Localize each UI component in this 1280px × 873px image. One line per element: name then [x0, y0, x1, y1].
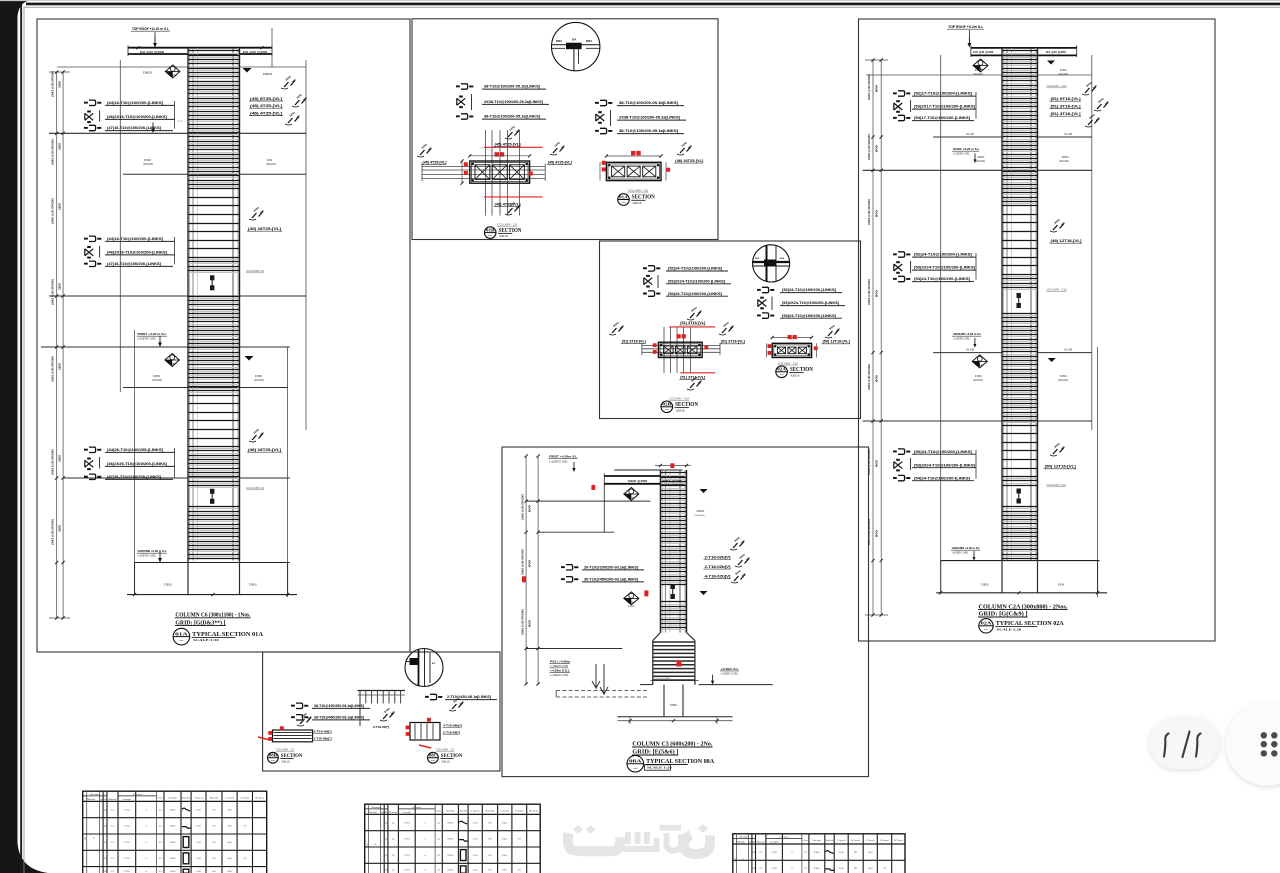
svg-text:Total length: Total length	[168, 797, 177, 800]
svg-text:20-T10@100/200-03.2a[LINKS]: 20-T10@100/200-03.2a[LINKS]	[584, 566, 638, 570]
svg-text:38-T10@100/200-08.1a[LINKS]: 38-T10@100/200-08.1a[LINKS]	[314, 704, 364, 708]
svg-text:D81: D81	[1060, 375, 1068, 378]
svg-text:Bar: Bar	[104, 798, 107, 801]
panel A right diagonal dim clusters group 1	[284, 82, 289, 87]
svg-text:(44)26-T10@100/205-[LINKS]: (44)26-T10@100/205-[LINKS]	[107, 448, 163, 452]
panel D border: COLUMN C3 typical section 08A	[502, 447, 869, 777]
svg-text:Type: Type	[749, 841, 752, 843]
svg-text:DA @D @200: DA @D @200	[973, 50, 993, 54]
panel A section bubble 01A	[173, 628, 190, 645]
panel A grid verticals	[119, 60, 121, 392]
svg-text:WT (pcs): WT (pcs)	[894, 840, 903, 842]
svg-text:38-T10@100/200-05.1b[LINKS]: 38-T10@100/200-05.1b[LINKS]	[619, 101, 678, 105]
svg-text:DB1: DB1	[164, 583, 173, 587]
svg-text:TYPICAL SECTION 01A: TYPICAL SECTION 01A	[192, 631, 263, 638]
panel F level marker diamond low	[972, 355, 987, 368]
svg-text:(+)ZERO (VB): (+)ZERO (VB)	[953, 154, 969, 156]
svg-text:(45) 4T25-[VL]: (45) 4T25-[VL]	[250, 104, 282, 108]
svg-text:SLAB: SLAB	[1064, 349, 1073, 352]
menu dots button	[1226, 703, 1280, 786]
svg-text:Location: Location	[779, 835, 788, 838]
svg-text:(46)2X16-T10@100/200-[LINKS]: (46)2X16-T10@100/200-[LINKS]	[107, 115, 167, 119]
svg-text:(200x400): (200x400)	[1058, 380, 1068, 382]
svg-text:Cont.: Cont.	[436, 810, 442, 813]
svg-text:38-T10@100/200-05.1a[LINKS]: 38-T10@100/200-05.1a[LINKS]	[484, 115, 540, 119]
svg-text:800: 800	[875, 84, 879, 92]
svg-text:SECTION: SECTION	[499, 228, 523, 234]
svg-text:D92: D92	[144, 158, 152, 162]
svg-text:01B: 01B	[486, 227, 495, 232]
svg-text:Member: Member	[740, 836, 749, 838]
svg-text:C (cm): C (cm)	[225, 798, 234, 800]
panel D ground line right	[699, 684, 773, 686]
panel A sub-beam line	[57, 66, 306, 68]
svg-text:SCALE: 1:20: SCALE: 1:20	[633, 201, 641, 205]
panel C border: sections 02B and 02A of column C2A	[600, 241, 861, 419]
panel A level marker diamond DB10	[165, 65, 180, 78]
svg-text:SECTION: SECTION	[441, 753, 463, 759]
svg-text:600: 600	[528, 504, 532, 512]
svg-text:SCALE 1:20: SCALE 1:20	[647, 765, 672, 769]
svg-text:DB1: DB1	[249, 583, 258, 587]
svg-text:Location: Location	[133, 793, 142, 796]
svg-text:SECTION: SECTION	[281, 753, 303, 759]
svg-text:(51) 3T16-[VL]: (51) 3T16-[VL]	[1051, 105, 1081, 109]
svg-text:600: 600	[528, 559, 532, 567]
panel A callout cluster 1	[89, 100, 96, 105]
panel A callout cluster 3	[89, 447, 96, 452]
svg-text:1100: 1100	[58, 283, 62, 290]
svg-text:D80: D80	[1062, 156, 1070, 159]
panel E left small section 08B	[274, 732, 312, 734]
svg-text:PGL/ +4.20m: PGL/ +4.20m	[550, 660, 571, 664]
svg-text:+0.00m S.L: +0.00m S.L	[721, 667, 739, 671]
svg-text:LINKS @100 SPACING: LINKS @100 SPACING	[51, 449, 55, 475]
svg-text:Location: Location	[412, 806, 421, 809]
svg-text:LINKS @100 SPACING: LINKS @100 SPACING	[51, 71, 55, 97]
panel E comb wall section	[358, 690, 406, 692]
svg-text:(53)2X24-T10@100/200-[LINKS]: (53)2X24-T10@100/200-[LINKS]	[914, 266, 975, 270]
svg-text:TYPICAL SECTION 08A: TYPICAL SECTION 08A	[646, 758, 715, 765]
svg-text:—: —	[780, 372, 785, 376]
panel D floor lines	[526, 500, 650, 502]
svg-text:D (mm): D (mm)	[880, 840, 889, 842]
table 3 column lines	[748, 834, 750, 873]
panel E detail circle	[405, 649, 443, 687]
panel F sub-beam line	[866, 74, 1092, 76]
svg-text:D81: D81	[975, 375, 983, 378]
svg-text:(250x600): (250x600)	[143, 163, 153, 166]
svg-text:(51) 3T16-[VL]: (51) 3T16-[VL]	[721, 340, 745, 344]
svg-text:2-T16-02b[V]: 2-T16-02b[V]	[705, 565, 731, 569]
panel C right callout rows	[762, 287, 769, 292]
svg-text:Member: Member	[372, 807, 381, 809]
svg-text:FIRST +4.20 m S.L: FIRST +4.20 m S.L	[138, 332, 167, 336]
panel F ground line and footing	[941, 560, 1100, 562]
svg-text:D (mm): D (mm)	[241, 798, 250, 800]
column C3 shaft with ties	[685, 470, 688, 633]
panel F border: COLUMN C2A typical section 02A	[859, 19, 1216, 641]
svg-text:LINKS @100 SPACING: LINKS @100 SPACING	[867, 199, 871, 225]
column C2A shaft with ties	[1036, 48, 1039, 561]
svg-text:B (cm): B (cm)	[486, 811, 495, 813]
svg-text:Shape/ Bend: Shape/ Bend	[826, 840, 834, 842]
svg-text:(200x400): (200x400)	[1058, 74, 1068, 76]
svg-text:(+)ZERO (VB): (+)ZERO (VB)	[138, 338, 156, 341]
svg-text:(51) 6T16-[VL]: (51) 6T16-[VL]	[1051, 97, 1081, 101]
svg-text:(46)2X26-T10@100/200-[LINKS]: (46)2X26-T10@100/200-[LINKS]	[107, 462, 167, 466]
svg-text:(+)ZERO (VB): (+)ZERO (VB)	[953, 339, 969, 341]
panel C right cross-section 02A	[772, 337, 811, 339]
svg-text:800: 800	[875, 374, 879, 382]
svg-text:2-T16-02b[V]: 2-T16-02b[V]	[705, 555, 731, 559]
panel D top beam	[604, 475, 686, 477]
svg-text:2-T16-08[*]: 2-T16-08[*]	[373, 725, 389, 729]
dark app frame left edge with rounded screen corners	[0, 0, 48, 873]
svg-text:800: 800	[875, 144, 879, 152]
svg-text:LINKS @100 SPACING: LINKS @100 SPACING	[521, 494, 525, 520]
svg-text:B (cm): B (cm)	[851, 840, 860, 842]
svg-text:D81: D81	[1060, 69, 1068, 72]
svg-text:(53)2X24-T10@100/200-[LINKS]: (53)2X24-T10@100/200-[LINKS]	[782, 301, 839, 305]
svg-text:—: —	[271, 758, 276, 762]
svg-text:LINKS @100 SPACING: LINKS @100 SPACING	[51, 198, 55, 224]
svg-text:(44)16-T10@100/200-[LINKS]: (44)16-T10@100/200-[LINKS]	[107, 237, 163, 241]
svg-text:DB2: DB2	[586, 40, 593, 43]
svg-text:TOP FOOTING: TOP FOOTING	[654, 678, 670, 680]
svg-text:(54)24-T10@100/200-[LINKS]: (54)24-T10@100/200-[LINKS]	[914, 476, 970, 480]
panel F right rebar label low	[1053, 449, 1058, 454]
panel F grid verticals	[940, 55, 942, 565]
svg-text:08A: 08A	[629, 759, 642, 764]
svg-text:SCALE: 1:20: SCALE: 1:20	[282, 759, 290, 763]
svg-text:D9: D9	[1058, 583, 1065, 587]
svg-text:Shape/ Bend: Shape/ Bend	[459, 811, 467, 813]
panel F top beam	[971, 47, 1077, 49]
panel C left callout rows	[648, 266, 655, 271]
svg-text:(200x400): (200x400)	[695, 515, 705, 517]
svg-text:(45) 4T25-[VL]: (45) 4T25-[VL]	[548, 161, 572, 165]
svg-text:2X38-T10@100/200-05.2a[LINKS]: 2X38-T10@100/200-05.2a[LINKS]	[484, 100, 543, 104]
svg-text:(50) 12T16-[VL]: (50) 12T16-[VL]	[823, 340, 850, 344]
svg-text:08C: 08C	[429, 753, 437, 758]
svg-text:DB2: DB2	[670, 704, 678, 707]
svg-text:(45) 16T25-[VL]: (45) 16T25-[VL]	[248, 227, 281, 231]
svg-text:—: —	[633, 766, 638, 770]
svg-text:FIRST +4.20m S.L: FIRST +4.20m S.L	[549, 455, 577, 459]
svg-text:D (mm): D (mm)	[515, 811, 524, 813]
table 1 header lines	[83, 795, 107, 797]
svg-text:2-T16-08[*]: 2-T16-08[*]	[443, 730, 460, 734]
svg-text:LINKS @100 SPACING: LINKS @100 SPACING	[867, 279, 871, 305]
panel D excavation dashed lines	[556, 690, 648, 692]
sheet outer border top thick line	[26, 3, 1280, 6]
svg-text:Type: Type	[100, 799, 103, 801]
svg-text:DB2: DB2	[556, 40, 563, 43]
panel B left callout rows	[461, 84, 468, 89]
svg-text:COLUMN - C2A: COLUMN - C2A	[778, 362, 798, 365]
svg-text:800: 800	[875, 209, 879, 217]
svg-text:Cont.: Cont.	[157, 797, 164, 800]
svg-text:—: —	[488, 233, 493, 237]
panel F callout cluster 1	[898, 91, 905, 96]
svg-text:—: —	[984, 627, 989, 631]
top hairline screen edge	[0, 0, 1280, 1]
panel C left cross-section 02B with beam extensions	[663, 327, 665, 373]
svg-text:DB1: DB1	[981, 583, 990, 587]
svg-text:38-T10@100/200-05.1b[LINKS]: 38-T10@100/200-05.1b[LINKS]	[484, 85, 540, 89]
sheet outer border left thick line	[20, 3, 22, 873]
panel B right callout rows	[600, 100, 607, 105]
panel C detail circle	[753, 245, 790, 282]
svg-text:(+)ZERO (VB): (+)ZERO (VB)	[721, 673, 738, 676]
svg-text:(200x400): (200x400)	[975, 161, 985, 163]
svg-text:(47)16-T10@100/200-[LINKS]: (47)16-T10@100/200-[LINKS]	[107, 262, 161, 266]
svg-text:01A: 01A	[619, 194, 628, 199]
table 2 header lines	[365, 808, 388, 810]
svg-text:Cont.: Cont.	[803, 839, 809, 842]
svg-text:Length: Length	[123, 798, 132, 801]
svg-text:Shape/ Bend: Shape/ Bend	[182, 798, 190, 800]
panel D top footing lines	[650, 680, 698, 682]
svg-text:Total length: Total length	[446, 810, 455, 813]
svg-text:LINKS @100 SPACING: LINKS @100 SPACING	[51, 356, 55, 382]
svg-text:(46) 4T25-[VL]: (46) 4T25-[VL]	[250, 111, 282, 115]
svg-text:800: 800	[875, 459, 879, 467]
svg-text:D9: D9	[267, 158, 273, 162]
svg-text:02A: 02A	[777, 367, 786, 372]
svg-text:D80: D80	[255, 374, 263, 378]
panel B right cross-section 01A	[606, 155, 661, 157]
svg-text:01A: 01A	[175, 631, 188, 636]
panel D top dim line with red text	[655, 465, 691, 467]
panel F level marker diamond top	[973, 59, 988, 72]
svg-text:T (pcs): T (pcs)	[194, 798, 203, 800]
svg-text:LINKS @100 SPACING: LINKS @100 SPACING	[521, 549, 525, 575]
panel E border: sections 08B and 08C	[263, 652, 500, 771]
svg-text:(+)ZERO (VB): (+)ZERO (VB)	[550, 674, 568, 677]
svg-text:C (cm): C (cm)	[500, 811, 509, 813]
svg-text:(200x400): (200x400)	[254, 379, 264, 382]
panel A border: COLUMN C6 typical section 01A	[37, 19, 410, 652]
panel E right small section 08C	[414, 724, 416, 740]
svg-text:2-T16-08[*]: 2-T16-08[*]	[314, 730, 332, 734]
svg-text:(200x400): (200x400)	[973, 380, 983, 382]
panel D left dimension chains	[525, 456, 527, 684]
panel B red rebar marks left section	[495, 152, 499, 156]
svg-text:LINKS @100 SPACING: LINKS @100 SPACING	[867, 74, 871, 100]
svg-text:SCALE: 1:20: SCALE: 1:20	[791, 373, 799, 377]
svg-text:1100: 1100	[58, 455, 62, 462]
svg-text:DA @D @200: DA @D @200	[140, 50, 164, 54]
svg-text:Bar: Bar	[752, 840, 755, 843]
svg-text:WT (pcs): WT (pcs)	[255, 798, 264, 800]
svg-text:(54)24-T10@100/200-[LINKS]: (54)24-T10@100/200-[LINKS]	[668, 292, 722, 296]
svg-text:(46) 12T16-[VL]: (46) 12T16-[VL]	[1051, 239, 1082, 243]
panel F left dimension chains	[872, 60, 874, 615]
svg-text:(51) 3T16-[VL]: (51) 3T16-[VL]	[622, 339, 646, 343]
panel D level diamond top	[624, 488, 639, 501]
svg-text:TOP ROOF +11.20 m S.L: TOP ROOF +11.20 m S.L	[132, 27, 169, 31]
svg-text:02B: 02B	[662, 402, 671, 407]
svg-text:(54)24-T10@100/200-[LINKS]: (54)24-T10@100/200-[LINKS]	[914, 277, 970, 281]
svg-text:LINKS @100 SPACING: LINKS @100 SPACING	[867, 134, 871, 160]
svg-text:Size: Size	[757, 841, 765, 843]
svg-text:(200x400): (200x400)	[1059, 161, 1069, 163]
panel B detail circle	[552, 22, 600, 70]
svg-text:SCALE: 1:20: SCALE: 1:20	[676, 408, 684, 412]
table 1 outer border	[83, 791, 267, 873]
column C6 shaft with ties	[238, 48, 241, 561]
svg-text:DA @D @200: DA @D @200	[1046, 50, 1066, 54]
svg-text:B (cm): B (cm)	[210, 798, 219, 800]
svg-text:(+)ZERO (VB): (+)ZERO (VB)	[138, 555, 156, 558]
svg-text:C.J.: C.J.	[178, 120, 183, 123]
svg-text:Size: Size	[389, 812, 397, 814]
panel A level marker diamond low	[165, 354, 180, 367]
svg-text:30-T10@450/200-03.1a[LINKS]: 30-T10@450/200-03.1a[LINKS]	[584, 578, 638, 582]
svg-text:(53)2X24-T10@100/200-[LINKS]: (53)2X24-T10@100/200-[LINKS]	[914, 463, 975, 467]
svg-text:1100: 1100	[58, 143, 62, 150]
svg-text:—: —	[665, 407, 670, 411]
panel C red marks left section	[669, 326, 715, 328]
svg-text:38-T10@450/200-08.1a[LINKS]: 38-T10@450/200-08.1a[LINKS]	[314, 716, 364, 720]
panel F floor slab lines	[933, 136, 1003, 138]
svg-text:38-T10@100/200-05.1a[LINKS]: 38-T10@100/200-05.1a[LINKS]	[619, 129, 678, 133]
panel D pedestal flare	[653, 633, 661, 641]
panel A floor slab lines	[49, 132, 306, 134]
svg-text:(+)ZERO (VB): (+)ZERO (VB)	[550, 665, 568, 668]
svg-text:2X38-T10@100/200-05.2a[LINKS]: 2X38-T10@100/200-05.2a[LINKS]	[619, 116, 680, 120]
panel D red dim text left	[522, 576, 526, 582]
svg-text:SECTION: SECTION	[675, 402, 699, 408]
svg-text:600: 600	[528, 619, 532, 627]
svg-text:SCALE 1:20: SCALE 1:20	[997, 627, 1022, 631]
svg-text:DB6 @200: DB6 @200	[628, 479, 648, 483]
svg-text:1100: 1100	[58, 363, 62, 370]
svg-text:SLAB: SLAB	[1064, 133, 1073, 136]
svg-text:(52)17-T10@100/200-[LINKS]: (52)17-T10@100/200-[LINKS]	[914, 92, 972, 96]
svg-text:(47)26-T10@100/200-[LINKS]: (47)26-T10@100/200-[LINKS]	[107, 475, 161, 479]
svg-text:(45) 4T25-[VL]: (45) 4T25-[VL]	[495, 143, 521, 147]
svg-text:—: —	[431, 758, 436, 762]
svg-text:2-T10@450-08.1a[LINKS]: 2-T10@450-08.1a[LINKS]	[447, 695, 491, 699]
panel B left section dimension lines	[470, 155, 530, 157]
svg-text:LINKS @100 SPACING: LINKS @100 SPACING	[51, 519, 55, 545]
svg-text:TYPICAL SECTION 02A: TYPICAL SECTION 02A	[996, 620, 1065, 627]
svg-text:(50) 12T16-[VL]: (50) 12T16-[VL]	[1045, 465, 1076, 469]
svg-text:SLAB: SLAB	[966, 133, 975, 136]
svg-text:Type: Type	[381, 812, 384, 814]
svg-text:Mark: Mark	[87, 798, 96, 801]
panel E left callout rows	[296, 703, 303, 708]
svg-text:(250x600): (250x600)	[266, 163, 276, 166]
svg-text:Length: Length	[770, 840, 779, 843]
svg-text:SCALE: 1:20: SCALE: 1:20	[442, 759, 450, 763]
svg-text:(52)24-T10@100/200-[LINKS]: (52)24-T10@100/200-[LINKS]	[782, 288, 836, 292]
svg-text:DA @D @200: DA @D @200	[243, 50, 267, 54]
svg-text:+4.20m S.G.L: +4.20m S.G.L	[550, 669, 570, 673]
svg-text:(45) 8T25-[VL]: (45) 8T25-[VL]	[250, 97, 282, 101]
table 1 row lines	[83, 817, 267, 819]
svg-text:1100: 1100	[58, 81, 62, 88]
svg-text:GROUND +0.00 m S.L: GROUND +0.00 m S.L	[952, 546, 980, 550]
panel D callout rows	[566, 565, 573, 570]
svg-text:LINKS @100 SPACING: LINKS @100 SPACING	[51, 279, 55, 305]
svg-text:Size: Size	[108, 799, 117, 801]
panel F section bubble 02A	[979, 619, 993, 633]
svg-text:4-T16-02b[V]: 4-T16-02b[V]	[705, 575, 731, 579]
svg-text:(53)2X17-T10@100/200-[LINKS]: (53)2X17-T10@100/200-[LINKS]	[914, 105, 975, 109]
svg-text:DB10: DB10	[263, 72, 272, 76]
svg-text:800: 800	[875, 529, 879, 537]
panel A callout cluster 2	[89, 236, 96, 241]
sheet inner border left thin line	[23, 7, 26, 873]
panel D level diamond low	[624, 592, 639, 605]
svg-text:D80: D80	[153, 374, 161, 378]
svg-text:(200x400): (200x400)	[973, 74, 983, 76]
svg-text:(45) 4T25-[VL]: (45) 4T25-[VL]	[423, 161, 447, 165]
panel D beam support line	[603, 484, 605, 532]
svg-text:GROUND +0.00 m S.L: GROUND +0.00 m S.L	[138, 549, 167, 553]
svg-text:(52)24-T10@100/200-[LINKS]: (52)24-T10@100/200-[LINKS]	[668, 267, 722, 271]
svg-text:(46)2X16-T10@100/200-[LINKS]: (46)2X16-T10@100/200-[LINKS]	[107, 251, 167, 255]
panel C red marks right section	[788, 335, 792, 339]
svg-text:—: —	[179, 639, 184, 643]
svg-text:Mark: Mark	[368, 811, 377, 814]
svg-text:T (pcs): T (pcs)	[837, 840, 846, 842]
panel A ground line and footing	[135, 562, 290, 564]
panel A level triangle	[243, 68, 252, 73]
panel F mid rebar label	[1053, 225, 1058, 230]
panel D footing below ground	[663, 685, 665, 717]
svg-text:ROOF +6.20 m S.L: ROOF +6.20 m S.L	[953, 147, 979, 151]
panel A left dimension chain lines	[56, 72, 58, 618]
khamsat watermark arabic word	[568, 833, 710, 854]
svg-text:(51) 3T16-[VL]: (51) 3T16-[VL]	[1051, 112, 1081, 116]
svg-text:02A: 02A	[981, 621, 992, 626]
svg-text:LINKS @100 SPACING: LINKS @100 SPACING	[521, 609, 525, 635]
panel D section bubble 08A	[627, 755, 644, 772]
svg-text:Total length: Total length	[813, 839, 822, 842]
svg-text:SLAB: SLAB	[966, 349, 975, 352]
table 3 outer border	[733, 834, 905, 873]
svg-text:4-T16-08b[*]: 4-T16-08b[*]	[443, 724, 462, 728]
table 2 row lines	[365, 830, 541, 832]
page indicator pill 1/1	[1150, 717, 1219, 769]
svg-text:D81: D81	[975, 69, 983, 72]
svg-text:LINKS @100 SPACING: LINKS @100 SPACING	[867, 364, 871, 390]
svg-text:T (pcs): T (pcs)	[471, 811, 480, 813]
svg-text:Mark: Mark	[736, 840, 745, 843]
svg-text:Bar: Bar	[385, 811, 388, 814]
svg-text:SECTION: SECTION	[632, 195, 656, 201]
table 3 row lines	[733, 859, 905, 861]
table 1 column lines	[99, 791, 101, 873]
svg-text:800: 800	[875, 289, 879, 297]
panel A top beam	[128, 47, 272, 49]
svg-text:DB10: DB10	[143, 71, 152, 75]
svg-text:GROUND +0.00 m S.L: GROUND +0.00 m S.L	[953, 332, 981, 336]
panel A right rebar label mid	[252, 213, 257, 218]
svg-text:(51) 3T16-[VL]: (51) 3T16-[VL]	[680, 321, 705, 325]
svg-text:08B: 08B	[269, 753, 277, 758]
svg-text:SECTION: SECTION	[790, 367, 814, 373]
svg-text:(54)17-T10@100/200-[LINKS]: (54)17-T10@100/200-[LINKS]	[914, 116, 970, 120]
svg-text:1100: 1100	[58, 525, 62, 532]
svg-text:1100: 1100	[58, 203, 62, 210]
svg-text:Member: Member	[90, 794, 99, 796]
